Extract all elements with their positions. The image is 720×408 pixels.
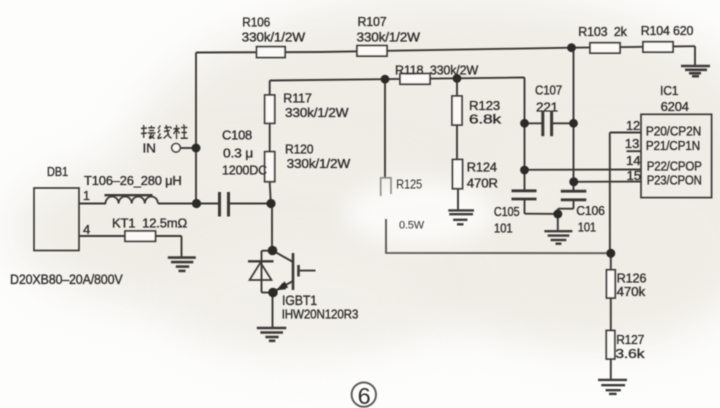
svg-text:1: 1	[83, 189, 90, 203]
svg-text:IHW20N120R3: IHW20N120R3	[282, 306, 359, 321]
svg-text:6: 6	[358, 383, 371, 408]
svg-text:221: 221	[536, 99, 558, 114]
svg-text:15: 15	[627, 168, 642, 183]
svg-text:330k/1/2W: 330k/1/2W	[285, 105, 349, 120]
svg-text:14: 14	[626, 153, 641, 168]
svg-text:P23/CPON: P23/CPON	[647, 173, 702, 188]
svg-text:DB1: DB1	[47, 164, 68, 179]
svg-text:R118 330k/2W: R118 330k/2W	[395, 62, 479, 77]
svg-text:12: 12	[626, 118, 640, 133]
svg-text:6.8k: 6.8k	[469, 112, 502, 127]
svg-text:470k: 470k	[617, 284, 646, 299]
svg-text:13: 13	[625, 136, 640, 151]
svg-text:C106: C106	[576, 203, 604, 218]
svg-text:330k/1/2W: 330k/1/2W	[357, 29, 421, 44]
svg-text:0.3 μ: 0.3 μ	[223, 145, 253, 160]
svg-text:330k/1/2W: 330k/1/2W	[287, 156, 351, 171]
svg-text:P20/CP2N: P20/CP2N	[646, 123, 701, 138]
svg-text:101: 101	[578, 219, 596, 234]
svg-text:KT1 12.5mΩ: KT1 12.5mΩ	[112, 216, 187, 231]
svg-text:R107: R107	[358, 14, 387, 29]
svg-text:R125: R125	[396, 177, 422, 192]
svg-text:R120: R120	[285, 142, 313, 157]
svg-text:0.5W: 0.5W	[399, 220, 425, 232]
svg-text:C105: C105	[494, 204, 520, 219]
svg-text:P21/CP1N: P21/CP1N	[646, 138, 700, 153]
svg-text:6204: 6204	[661, 99, 689, 114]
svg-text:R127: R127	[616, 332, 644, 347]
svg-text:1200DC: 1200DC	[222, 162, 267, 177]
svg-text:IN: IN	[143, 140, 156, 155]
svg-text:R117: R117	[283, 91, 311, 106]
svg-text:T106–26_280 μH: T106–26_280 μH	[84, 173, 182, 188]
svg-text:P22/CPOP: P22/CPOP	[647, 159, 702, 174]
svg-text:R103 2k: R103 2k	[578, 24, 627, 39]
svg-text:101: 101	[494, 220, 513, 235]
svg-text:D20XB80–20A/800V: D20XB80–20A/800V	[10, 271, 123, 287]
svg-text:4: 4	[83, 222, 90, 237]
svg-text:R106: R106	[242, 14, 270, 29]
svg-text:330k/1/2W: 330k/1/2W	[242, 29, 306, 44]
svg-text:R104 620: R104 620	[641, 23, 694, 38]
svg-text:IC1: IC1	[660, 83, 678, 98]
svg-text:C107: C107	[535, 83, 562, 98]
svg-text:3.6k: 3.6k	[615, 346, 645, 361]
svg-text:470R: 470R	[467, 176, 498, 191]
svg-text:R124: R124	[467, 159, 497, 174]
svg-text:C108: C108	[222, 127, 252, 142]
